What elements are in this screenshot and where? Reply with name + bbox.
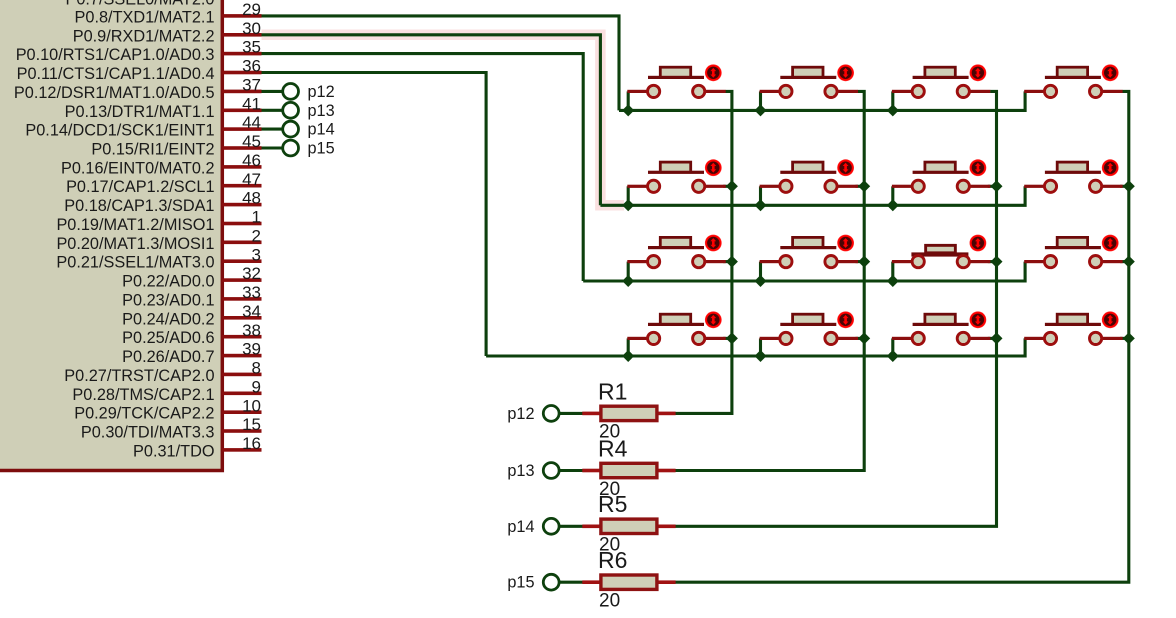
push-button row 1 col 3 xyxy=(892,64,990,97)
svg-text:20: 20 xyxy=(599,591,620,612)
wire button row 3 col 1 right link xyxy=(723,260,732,263)
pin 48 P0.18/CAP1.3/SDA1 xyxy=(64,189,261,215)
svg-text:R6: R6 xyxy=(598,547,627,573)
wire button row 2 col 2 right link xyxy=(856,185,865,188)
push-button row 4 col 3 xyxy=(892,311,990,344)
junction col 1 bus / row 3 link xyxy=(726,256,738,268)
wire button row 2 col 4 right link xyxy=(1120,185,1129,188)
svg-text:44: 44 xyxy=(242,113,261,132)
svg-text:p15: p15 xyxy=(308,140,335,158)
svg-text:P0.30/TDI/MAT3.3: P0.30/TDI/MAT3.3 xyxy=(81,424,215,442)
pin 32 P0.22/AD0.0 xyxy=(122,264,261,290)
svg-text:39: 39 xyxy=(242,340,261,359)
svg-text:R4: R4 xyxy=(598,435,628,461)
svg-text:P0.21/SSEL1/MAT3.0: P0.21/SSEL1/MAT3.0 xyxy=(56,254,214,272)
pin 3 P0.21/SSEL1/MAT3.0 xyxy=(56,245,261,271)
svg-text:36: 36 xyxy=(242,57,261,76)
push-button row 4 col 2 xyxy=(760,311,858,344)
push-button row 3 col 4 xyxy=(1024,235,1122,268)
svg-text:8: 8 xyxy=(252,359,261,378)
junction row 1 bus / col 1 drop xyxy=(622,104,634,116)
svg-text:16: 16 xyxy=(242,434,261,453)
pin 10 P0.29/TCK/CAP2.2 xyxy=(74,396,261,422)
junction row 4 bus / col 2 drop xyxy=(755,350,767,362)
pin 8 P0.27/TRST/CAP2.0 xyxy=(64,359,261,385)
pin 29 P0.8/TXD1/MAT2.1 xyxy=(75,0,262,26)
svg-text:P0.25/AD0.6: P0.25/AD0.6 xyxy=(122,329,214,347)
wire button row 4 col 1 left drop xyxy=(627,338,630,356)
svg-text:10: 10 xyxy=(242,396,261,415)
svg-text:p13: p13 xyxy=(507,462,534,480)
svg-text:R1: R1 xyxy=(598,378,627,404)
junction row 4 bus / col 1 drop xyxy=(622,350,634,362)
junction col 4 bus / row 2 link xyxy=(1123,180,1135,192)
wire keypad column 4 bus down to resistor xyxy=(675,91,1129,582)
svg-text:P0.17/CAP1.2/SCL1: P0.17/CAP1.2/SCL1 xyxy=(66,178,214,196)
junction row 2 bus / col 3 drop xyxy=(887,199,899,211)
wire terminal p13 to R4 xyxy=(559,469,583,472)
wire keypad row 1 bus xyxy=(619,91,1025,110)
resistor R6 xyxy=(582,573,675,591)
svg-text:2: 2 xyxy=(252,226,261,245)
junction col 3 bus / row 3 link xyxy=(991,256,1003,268)
push-button row 1 col 1 xyxy=(627,64,725,97)
svg-text:P0.28/TMS/CAP2.1: P0.28/TMS/CAP2.1 xyxy=(72,386,214,404)
wire button row 1 col 3 left drop xyxy=(891,91,894,110)
pin 15 P0.30/TDI/MAT3.3 xyxy=(81,415,262,441)
svg-text:P0.13/DTR1/MAT1.1: P0.13/DTR1/MAT1.1 xyxy=(65,103,215,121)
junction col 1 bus / row 2 link xyxy=(726,180,738,192)
push-button row 3 col 3 (pressed) xyxy=(892,235,990,268)
svg-text:P0.26/AD0.7: P0.26/AD0.7 xyxy=(122,348,214,366)
svg-text:P0.18/CAP1.3/SDA1: P0.18/CAP1.3/SDA1 xyxy=(64,197,214,215)
resistor R5 xyxy=(582,517,675,535)
push-button row 4 col 4 xyxy=(1024,311,1122,344)
push-button row 2 col 3 xyxy=(892,159,990,192)
pin 1 P0.19/MAT1.2/MISO1 xyxy=(56,208,261,234)
junction row 4 bus / col 3 drop xyxy=(887,350,899,362)
junction col 3 bus / row 4 link xyxy=(991,332,1003,344)
svg-text:P0.27/TRST/CAP2.0: P0.27/TRST/CAP2.0 xyxy=(64,367,214,385)
svg-text:32: 32 xyxy=(242,264,261,283)
svg-text:P0.11/CTS1/CAP1.1/AD0.4: P0.11/CTS1/CAP1.1/AD0.4 xyxy=(17,65,215,83)
pin 44 P0.14/DCD1/SCK1/EINT1 xyxy=(25,113,261,139)
wire pin to terminal p12 xyxy=(262,90,284,93)
svg-text:P0.7/SSEL0/MAT2.0: P0.7/SSEL0/MAT2.0 xyxy=(65,0,214,9)
wire button row 3 col 2 right link xyxy=(856,260,865,263)
terminal p15 (resistor side) xyxy=(543,574,559,590)
wire button row 4 col 3 right link xyxy=(988,337,997,340)
terminal p14 (resistor side) xyxy=(543,518,559,534)
svg-text:34: 34 xyxy=(242,302,261,321)
svg-text:P0.31/TDO: P0.31/TDO xyxy=(133,442,214,460)
svg-text:P0.19/MAT1.2/MISO1: P0.19/MAT1.2/MISO1 xyxy=(56,216,214,234)
junction col 4 bus / row 3 link xyxy=(1123,256,1135,268)
svg-text:P0.14/DCD1/SCK1/EINT1: P0.14/DCD1/SCK1/EINT1 xyxy=(25,122,214,140)
wire button row 3 col 4 right link xyxy=(1120,260,1129,263)
pin 39 P0.26/AD0.7 xyxy=(122,340,261,366)
wire pin to terminal p13 xyxy=(262,109,284,112)
svg-text:45: 45 xyxy=(242,132,261,151)
svg-text:p14: p14 xyxy=(308,121,335,139)
wire pin to terminal p15 xyxy=(262,146,284,149)
wire terminal p15 to R6 xyxy=(559,581,583,584)
wire button row 3 col 1 left drop xyxy=(627,262,630,281)
svg-text:P0.16/EINT0/MAT0.2: P0.16/EINT0/MAT0.2 xyxy=(61,159,215,177)
pin 37 P0.12/DSR1/MAT1.0/AD0.5 xyxy=(14,76,262,102)
svg-text:46: 46 xyxy=(242,151,261,170)
svg-text:41: 41 xyxy=(242,94,261,113)
wire button row 1 col 1 left drop xyxy=(627,91,630,110)
wire pin to keypad row 4 xyxy=(262,73,487,357)
wire terminal p12 to R1 xyxy=(559,412,583,415)
svg-text:48: 48 xyxy=(242,189,261,208)
svg-text:P0.22/AD0.0: P0.22/AD0.0 xyxy=(122,273,214,291)
wire keypad row 3 bus xyxy=(583,262,1025,281)
wire button row 4 col 2 right link xyxy=(856,337,865,340)
wire terminal p14 to R5 xyxy=(559,525,583,528)
wire button row 2 col 3 left drop xyxy=(891,186,894,205)
junction col 3 bus / row 2 link xyxy=(991,180,1003,192)
wire pin to keypad row 3 xyxy=(262,54,584,281)
svg-text:P0.20/MAT1.3/MOSI1: P0.20/MAT1.3/MOSI1 xyxy=(56,235,214,253)
svg-text:3: 3 xyxy=(252,245,261,264)
svg-text:35: 35 xyxy=(242,38,261,57)
svg-text:p15: p15 xyxy=(507,574,534,592)
wire button row 3 col 3 left drop xyxy=(891,262,894,281)
terminal p15 (MCU side) xyxy=(283,140,299,156)
svg-text:p12: p12 xyxy=(308,83,335,101)
push-button row 2 col 1 xyxy=(627,159,725,192)
svg-text:33: 33 xyxy=(242,283,261,302)
push-button row 2 col 4 xyxy=(1024,159,1122,192)
wire button row 2 col 2 left drop xyxy=(759,186,762,205)
push-button row 3 col 1 xyxy=(627,235,725,268)
resistor R4 xyxy=(582,462,675,480)
junction col 4 bus / row 4 link xyxy=(1123,332,1135,344)
pin 46 P0.16/EINT0/MAT0.2 xyxy=(61,151,262,177)
resistor R1 xyxy=(582,405,675,423)
wire keypad column 1 bus down to resistor xyxy=(675,91,732,413)
wire highlight halo on pin-30 net xyxy=(262,35,625,206)
wire button row 2 col 3 right link xyxy=(988,185,997,188)
terminal p14 (MCU side) xyxy=(283,121,299,137)
junction col 1 bus / row 4 link xyxy=(726,332,738,344)
wire button row 4 col 1 right link xyxy=(723,337,732,340)
junction row 3 bus / col 3 drop xyxy=(887,275,899,287)
junction row 1 bus / col 3 drop xyxy=(887,104,899,116)
svg-text:P0.15/RI1/EINT2: P0.15/RI1/EINT2 xyxy=(91,141,214,159)
svg-text:P0.23/AD0.1: P0.23/AD0.1 xyxy=(122,291,214,309)
wire button row 4 col 3 left drop xyxy=(891,338,894,356)
junction row 1 bus / col 2 drop xyxy=(755,104,767,116)
push-button row 1 col 2 xyxy=(760,64,858,97)
wire button row 4 col 2 left drop xyxy=(759,338,762,356)
pin 47 P0.17/CAP1.2/SCL1 xyxy=(66,170,261,196)
junction col 2 bus / row 2 link xyxy=(858,180,870,192)
svg-text:P0.12/DSR1/MAT1.0/AD0.5: P0.12/DSR1/MAT1.0/AD0.5 xyxy=(14,84,215,102)
MCU U1 body (LPC21xx port-0 block, partially off-canvas) xyxy=(0,0,222,471)
svg-text:P0.29/TCK/CAP2.2: P0.29/TCK/CAP2.2 xyxy=(74,405,214,423)
terminal p13 (resistor side) xyxy=(543,463,559,479)
svg-text:p13: p13 xyxy=(308,102,335,120)
wire keypad column 2 bus down to resistor xyxy=(675,91,864,470)
svg-text:p12: p12 xyxy=(507,405,534,423)
wire pin to terminal p14 xyxy=(262,128,284,131)
svg-text:P0.9/RXD1/MAT2.2: P0.9/RXD1/MAT2.2 xyxy=(73,27,215,45)
terminal p12 (MCU side) xyxy=(283,84,299,100)
junction col 2 bus / row 3 link xyxy=(858,256,870,268)
pin 41 P0.13/DTR1/MAT1.1 xyxy=(65,94,262,120)
pin 2 P0.20/MAT1.3/MOSI1 xyxy=(56,226,261,252)
svg-text:P0.24/AD0.2: P0.24/AD0.2 xyxy=(122,310,214,328)
junction row 2 bus / col 1 drop xyxy=(622,199,634,211)
junction col 2 bus / row 4 link xyxy=(858,332,870,344)
pin 36 P0.11/CTS1/CAP1.1/AD0.4 xyxy=(17,57,262,83)
svg-text:15: 15 xyxy=(242,415,261,434)
svg-text:P0.10/RTS1/CAP1.0/AD0.3: P0.10/RTS1/CAP1.0/AD0.3 xyxy=(16,46,215,64)
pin 30 P0.9/RXD1/MAT2.2 xyxy=(73,19,262,45)
svg-text:9: 9 xyxy=(252,377,261,396)
wire keypad row 4 bus xyxy=(486,338,1025,356)
svg-text:29: 29 xyxy=(242,0,261,19)
wire button row 2 col 1 left drop xyxy=(627,186,630,205)
terminal p12 (resistor side) xyxy=(543,406,559,422)
svg-text:38: 38 xyxy=(242,321,261,340)
svg-text:p14: p14 xyxy=(507,518,534,536)
junction row 2 bus / col 2 drop xyxy=(755,199,767,211)
pin 45 P0.15/RI1/EINT2 xyxy=(91,132,261,158)
pin 35 P0.10/RTS1/CAP1.0/AD0.3 xyxy=(16,38,262,64)
wire pin to keypad row 2 xyxy=(262,35,601,206)
pin 34 P0.24/AD0.2 xyxy=(122,302,261,328)
wire pin to keypad row 1 xyxy=(262,16,620,111)
push-button row 4 col 1 xyxy=(627,311,725,344)
pin 33 P0.23/AD0.1 xyxy=(122,283,261,309)
wire keypad column 3 bus down to resistor xyxy=(675,91,997,526)
wire button row 1 col 2 left drop xyxy=(759,91,762,110)
push-button row 3 col 2 xyxy=(760,235,858,268)
svg-text:1: 1 xyxy=(252,208,261,227)
svg-text:R5: R5 xyxy=(598,491,627,517)
pin 38 P0.25/AD0.6 xyxy=(122,321,261,347)
push-button row 2 col 2 xyxy=(760,159,858,192)
svg-text:47: 47 xyxy=(242,170,261,189)
wire button row 4 col 4 right link xyxy=(1120,337,1129,340)
push-button row 1 col 4 xyxy=(1024,64,1122,97)
junction row 3 bus / col 1 drop xyxy=(622,275,634,287)
pin 16 P0.31/TDO xyxy=(133,434,261,460)
pin 9 P0.28/TMS/CAP2.1 xyxy=(72,377,261,403)
junction row 3 bus / col 2 drop xyxy=(755,275,767,287)
svg-text:37: 37 xyxy=(242,76,261,95)
svg-text:30: 30 xyxy=(242,19,261,38)
wire button row 3 col 2 left drop xyxy=(759,262,762,281)
wire button row 3 col 3 right link xyxy=(988,260,997,263)
terminal p13 (MCU side) xyxy=(283,102,299,118)
wire button row 2 col 1 right link xyxy=(723,185,732,188)
wire keypad row 2 bus xyxy=(600,186,1025,205)
svg-text:P0.8/TXD1/MAT2.1: P0.8/TXD1/MAT2.1 xyxy=(75,8,215,26)
